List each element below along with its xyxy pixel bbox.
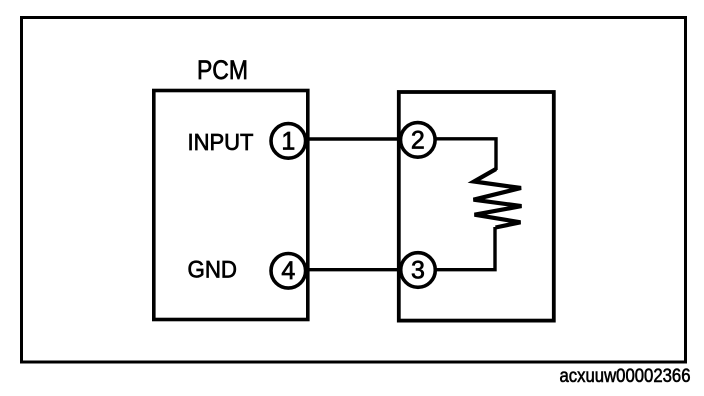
pin circle 2 <box>401 123 436 158</box>
svg-text:1: 1 <box>281 127 295 155</box>
wire pin4 to pin3 <box>288 268 418 271</box>
svg-text:acxuuw00002366: acxuuw00002366 <box>560 366 691 387</box>
pin circle 3 <box>401 253 436 288</box>
wire pin3 to resistor bottom <box>430 227 495 270</box>
pin circle 1 <box>271 124 306 159</box>
pin circle 4 <box>271 253 306 288</box>
svg-text:INPUT: INPUT <box>188 129 254 155</box>
resistor R1 <box>474 169 522 228</box>
svg-text:GND: GND <box>188 256 238 283</box>
svg-text:4: 4 <box>281 257 295 285</box>
wire pin1 to pin2 <box>288 137 418 140</box>
wire pin2 to resistor top <box>430 139 496 170</box>
PCM box U1 <box>154 91 308 320</box>
svg-text:PCM: PCM <box>197 55 248 85</box>
sensor box <box>399 92 554 321</box>
svg-text:3: 3 <box>411 256 425 284</box>
svg-text:2: 2 <box>411 126 425 154</box>
